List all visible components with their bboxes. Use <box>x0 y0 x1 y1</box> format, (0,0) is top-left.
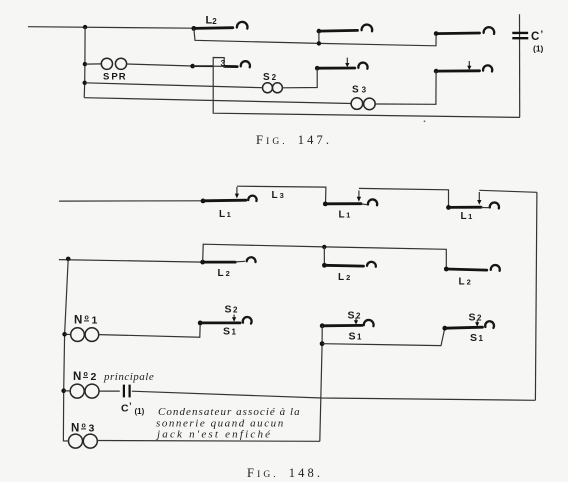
svg-text:SPR: SPR <box>103 72 126 83</box>
wire No3 corner <box>63 438 68 441</box>
wire row2 main fig148 <box>59 260 203 263</box>
svg-text:N: N <box>71 423 79 435</box>
node junction L2 contact3 <box>444 267 449 272</box>
svg-text:(1): (1) <box>533 44 544 54</box>
lamp No3 circle2 <box>83 434 97 448</box>
svg-text:FIG.148.: FIG.148. <box>247 466 323 480</box>
svg-text:L2: L2 <box>338 272 350 283</box>
capacitor C' lead top <box>519 14 521 117</box>
svg-text:C’: C’ <box>121 401 132 415</box>
jack contact rowB-2 bar <box>317 67 355 70</box>
svg-text:1: 1 <box>92 315 98 327</box>
jack contact L1-2 hook arc <box>368 199 377 205</box>
svg-text:S1: S1 <box>470 332 484 344</box>
node junction rowB contact2 <box>315 66 320 71</box>
node junction bypass crossing <box>317 41 321 45</box>
wire bracket L3 segment C to right rail <box>479 190 537 192</box>
arrow rowB-3 <box>468 61 470 66</box>
arrow L1-3 <box>478 192 480 201</box>
svg-text:(1): (1) <box>135 407 145 416</box>
jack contact L1-1 bar <box>203 199 246 202</box>
jack contact row1-3 hook <box>484 27 495 34</box>
wire left vertical fig148 <box>63 259 68 439</box>
svg-text:N: N <box>73 371 81 383</box>
jack contact L1-2 bar <box>326 202 362 205</box>
wire No2 to capacitor <box>99 390 120 392</box>
node junction rowB before jack3 <box>190 64 195 69</box>
node junction S PR row <box>83 62 87 66</box>
jack contact S1-3 hook <box>485 321 494 328</box>
wire S3 to contact3 vertical <box>375 71 436 104</box>
node junction bracket L2 mid <box>322 245 326 249</box>
lamp No3 circle1 <box>69 434 83 448</box>
jack contact row1-2 hook <box>362 25 373 32</box>
svg-text:S2: S2 <box>469 312 483 324</box>
wire No1 to S contact1 <box>99 323 201 337</box>
svg-text:jack n'est enfiché: jack n'est enfiché <box>155 429 272 441</box>
wire to S PR lamp <box>85 63 101 65</box>
svg-text:L1: L1 <box>339 210 351 221</box>
node junction L2 contact1 <box>200 260 205 265</box>
wire bypass jog from L2 node <box>194 28 436 45</box>
wire S PR to jack3 <box>127 64 193 66</box>
jack contact rowB-1 bar <box>225 65 238 68</box>
wire S2 to contact2 vertical <box>282 68 317 88</box>
node junction left vertical row2 <box>66 257 71 262</box>
svg-text:L1: L1 <box>219 209 231 220</box>
jack contact L1-3 bar <box>449 206 481 209</box>
lamp S3 circle2 <box>364 98 376 110</box>
lamp No1 circle1 <box>71 328 85 342</box>
svg-text:L2: L2 <box>206 15 218 27</box>
node junction L1 contact1 <box>201 199 206 204</box>
node junction L2 contact2 <box>322 263 327 268</box>
wire left vertical fig147 <box>83 27 86 98</box>
wire S1 lower row <box>322 329 445 346</box>
svg-text:3: 3 <box>89 423 95 435</box>
wire row1 main fig148 <box>59 200 203 202</box>
node junction lamp No2 <box>61 388 66 393</box>
node junction row1 contact3 <box>434 31 439 36</box>
jack contact L1-3 hook arc <box>490 203 499 209</box>
jack contact L1-2 hook <box>361 203 368 206</box>
node junction S1 lower <box>320 341 325 346</box>
jack contact L1-3 hook <box>481 207 490 209</box>
arrow L1-1 <box>236 187 238 194</box>
node junction rowB contact3 <box>434 69 439 74</box>
wire top line fig147 <box>28 27 194 29</box>
speck <box>424 120 426 122</box>
svg-text:2: 2 <box>91 371 97 383</box>
jack contact L2 bar <box>194 26 233 29</box>
jack contact L2-1 hook arc <box>247 257 256 262</box>
svg-text:S1: S1 <box>349 331 363 343</box>
capacitor C' plates <box>512 33 528 38</box>
lamp S PR circle2 <box>115 58 126 69</box>
node junction lamp No1 <box>62 332 67 337</box>
svg-text:FIG.147.: FIG.147. <box>256 133 332 147</box>
jack contact L2-2 hook <box>367 262 376 267</box>
svg-text:N: N <box>74 315 82 327</box>
node junction S contact2 <box>320 323 325 328</box>
jack contact S1-2 hook <box>364 320 374 326</box>
capacitor C'(1) plates <box>124 385 130 398</box>
jack contact L2-3 hook <box>491 265 500 271</box>
lamp No2 circle2 <box>85 384 99 398</box>
wire S3 row <box>84 98 351 104</box>
jack contact rowB-1 hook <box>241 61 250 67</box>
jack contact row1-2 bar <box>319 29 358 33</box>
svg-text:L2: L2 <box>459 277 471 288</box>
jack contact L1-1 hook <box>248 196 256 201</box>
node junction L1 contact3 <box>446 205 451 210</box>
wire bracket L3 segment B <box>359 188 449 207</box>
wire No3 row <box>97 440 319 443</box>
wire rowB dot to jack3 <box>193 65 214 67</box>
wire No1 lamp left <box>65 333 71 335</box>
arrow L1-2 <box>358 191 360 198</box>
jack contact L2-3 bar <box>447 269 487 270</box>
node junction L1 contact2 <box>323 202 328 207</box>
jack contact S1-2 bar <box>322 324 362 327</box>
svg-text:S3: S3 <box>352 85 367 96</box>
lamp S2 circle2 <box>272 83 282 93</box>
jack contact L2-2 bar <box>325 264 364 268</box>
svg-text:S2: S2 <box>225 304 239 316</box>
arrow rowB-2 <box>346 58 348 64</box>
wire S contact2 vertical long <box>320 326 322 442</box>
wire S2 row <box>85 83 263 88</box>
jack contact L2 hook <box>237 22 248 29</box>
jack contact S1-1 hook <box>243 317 252 324</box>
node junction L2 contact <box>191 26 196 31</box>
svg-text:L1: L1 <box>461 211 473 222</box>
wire bracket drop to L2-2 <box>323 247 325 265</box>
jack contact L2-1 bar <box>203 261 235 264</box>
lamp S2 circle1 <box>263 83 273 93</box>
lamp No2 circle1 <box>70 384 84 398</box>
jack contact rowB-2 hook <box>358 63 367 69</box>
jack contact row1-3 bar <box>436 32 479 35</box>
svg-text:C’: C’ <box>531 30 543 44</box>
node junction left vertical top <box>83 25 87 29</box>
svg-text:L3: L3 <box>272 190 284 201</box>
lamp No1 circle2 <box>85 328 99 342</box>
node junction S contact3 <box>442 326 447 331</box>
svg-text:S1: S1 <box>223 326 237 338</box>
wire No2 lamp left <box>64 390 70 392</box>
wire bracket L3 segment A <box>237 186 326 203</box>
jack contact rowB-3 bar <box>436 69 479 72</box>
arrow S2-3 <box>476 320 478 323</box>
jack contact rowB-3 hook <box>483 65 492 71</box>
lamp S3 circle1 <box>351 98 363 110</box>
wire bottom rail fig147 <box>213 66 520 117</box>
wire bracket L2 up <box>203 244 447 268</box>
node junction S contact1 <box>198 321 203 326</box>
svg-text:S2: S2 <box>263 72 277 83</box>
jack body rectangle with 3 <box>213 58 224 67</box>
arrow S2-1 <box>233 315 235 318</box>
wire No2 rail to right <box>132 391 536 400</box>
wire vertical contact2 row1 <box>318 31 320 43</box>
svg-text:principale: principale <box>103 371 154 383</box>
jack contact S1-1 bar <box>200 321 240 324</box>
arrow S2-2 <box>355 318 357 321</box>
svg-text:Condensateur associé à la: Condensateur associé à la <box>158 406 301 418</box>
node junction S2 row <box>83 81 87 85</box>
jack contact L2-1 hook <box>235 260 245 263</box>
node junction row1 contact2 top <box>317 29 322 34</box>
svg-text:L2: L2 <box>218 268 230 279</box>
jack contact S1-3 bar <box>445 327 483 328</box>
wire rowB-1 bar lead <box>213 65 225 67</box>
svg-text:S2: S2 <box>348 310 362 322</box>
wire right rail fig148 <box>535 192 537 400</box>
lamp S PR circle1 <box>101 58 112 69</box>
